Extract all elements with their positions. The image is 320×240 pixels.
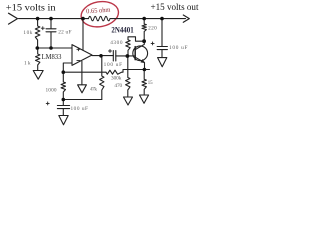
resistor R7 15 <box>142 70 146 96</box>
svg-text:470: 470 <box>114 83 122 89</box>
svg-text:1000: 1000 <box>46 87 57 93</box>
output arrow <box>183 15 189 22</box>
svg-text:10k: 10k <box>23 30 32 36</box>
wire top rail right <box>110 18 186 20</box>
polarity mark C4 <box>151 42 154 45</box>
ground mid (op-amp V-) <box>78 85 87 93</box>
capacitor C1 22uF <box>46 19 56 48</box>
wire node B to op-amp <box>37 47 72 49</box>
red highlight ellipse <box>79 0 120 30</box>
resistor R2 1k <box>36 48 40 71</box>
svg-text:100 uF: 100 uF <box>71 106 89 112</box>
svg-text:47k: 47k <box>90 87 97 93</box>
input connector <box>9 13 18 24</box>
svg-text:100 uF: 100 uF <box>169 45 188 51</box>
svg-text:220: 220 <box>148 25 157 31</box>
svg-text:4300: 4300 <box>110 40 123 46</box>
svg-text:+15 volts out: +15 volts out <box>151 3 199 13</box>
polarity mark C3 <box>46 102 49 105</box>
svg-text:22 uF: 22 uF <box>58 30 71 36</box>
ground left <box>33 71 43 80</box>
capacitor C4 100uF right <box>157 19 167 58</box>
resistor R3 47k feedback <box>100 56 104 100</box>
op-amp V+ wire <box>82 19 84 51</box>
capacitor C2 100uF <box>113 51 116 61</box>
svg-text:100 uF: 100 uF <box>104 62 123 68</box>
ground right <box>158 58 167 67</box>
wire op-amp output <box>92 55 113 57</box>
op-amp plus mark <box>77 48 80 51</box>
resistor R4 1000 <box>61 72 65 99</box>
resistor R6 470 <box>126 56 130 97</box>
resistor R5 300k <box>63 70 149 75</box>
svg-text:300k: 300k <box>111 75 122 81</box>
wire cap to base <box>116 55 135 57</box>
svg-text:15: 15 <box>148 80 153 86</box>
op-amp minus mark <box>77 60 80 62</box>
svg-text:2N4401: 2N4401 <box>111 26 133 35</box>
svg-text:+15 volts in: +15 volts in <box>6 3 56 13</box>
wire minus input routing <box>63 63 72 72</box>
wire bottom left <box>63 99 102 101</box>
resistor R 0.65 ohm <box>89 16 111 20</box>
ground bottom left <box>59 116 68 125</box>
polarity mark C1 <box>41 27 44 30</box>
op-amp V- ground wire <box>81 61 83 84</box>
ground under 15 <box>140 95 149 103</box>
junction dots <box>36 17 164 101</box>
op-amp U1 LM833 <box>72 45 92 66</box>
polarity mark C2 <box>109 50 112 53</box>
resistor R8 220 <box>142 19 146 42</box>
wire top rail left <box>19 18 89 20</box>
ground under 470 <box>124 97 133 105</box>
svg-text:0.65 ohm: 0.65 ohm <box>86 7 111 16</box>
resistor R9 4300 <box>126 37 144 56</box>
svg-text:1k: 1k <box>24 60 31 66</box>
svg-text:LM833: LM833 <box>42 52 62 61</box>
capacitor C3 100uF bottom <box>57 100 69 116</box>
resistor R1 10k <box>35 19 40 48</box>
transistor Q1 2N4401 <box>133 46 148 61</box>
